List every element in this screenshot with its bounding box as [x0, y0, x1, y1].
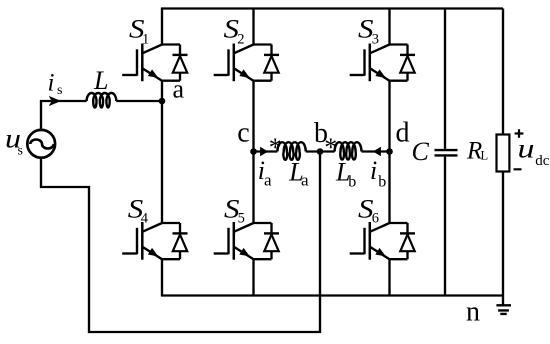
- svg-text:5: 5: [238, 210, 245, 226]
- svg-text:a: a: [264, 171, 272, 190]
- svg-text:n: n: [466, 296, 480, 327]
- svg-text:4: 4: [141, 210, 149, 226]
- svg-text:s: s: [57, 83, 62, 98]
- svg-text:*: *: [269, 133, 282, 162]
- svg-text:3: 3: [372, 32, 379, 48]
- svg-text:L: L: [93, 66, 108, 95]
- svg-text:u: u: [518, 133, 535, 163]
- svg-text:C: C: [412, 137, 430, 166]
- svg-text:L: L: [481, 149, 489, 163]
- svg-text:a: a: [301, 171, 309, 190]
- svg-text:i: i: [370, 156, 377, 185]
- svg-text:b: b: [378, 174, 386, 191]
- svg-text:d: d: [396, 118, 410, 149]
- svg-text:s: s: [18, 144, 23, 159]
- svg-text:b: b: [348, 174, 356, 191]
- svg-text:i: i: [48, 70, 55, 97]
- svg-text:1: 1: [142, 32, 149, 48]
- svg-text:a: a: [173, 75, 185, 104]
- svg-text:*: *: [324, 133, 337, 162]
- svg-text:dc: dc: [535, 153, 550, 169]
- svg-text:6: 6: [372, 210, 379, 226]
- svg-text:2: 2: [237, 32, 244, 48]
- svg-text:c: c: [237, 117, 249, 148]
